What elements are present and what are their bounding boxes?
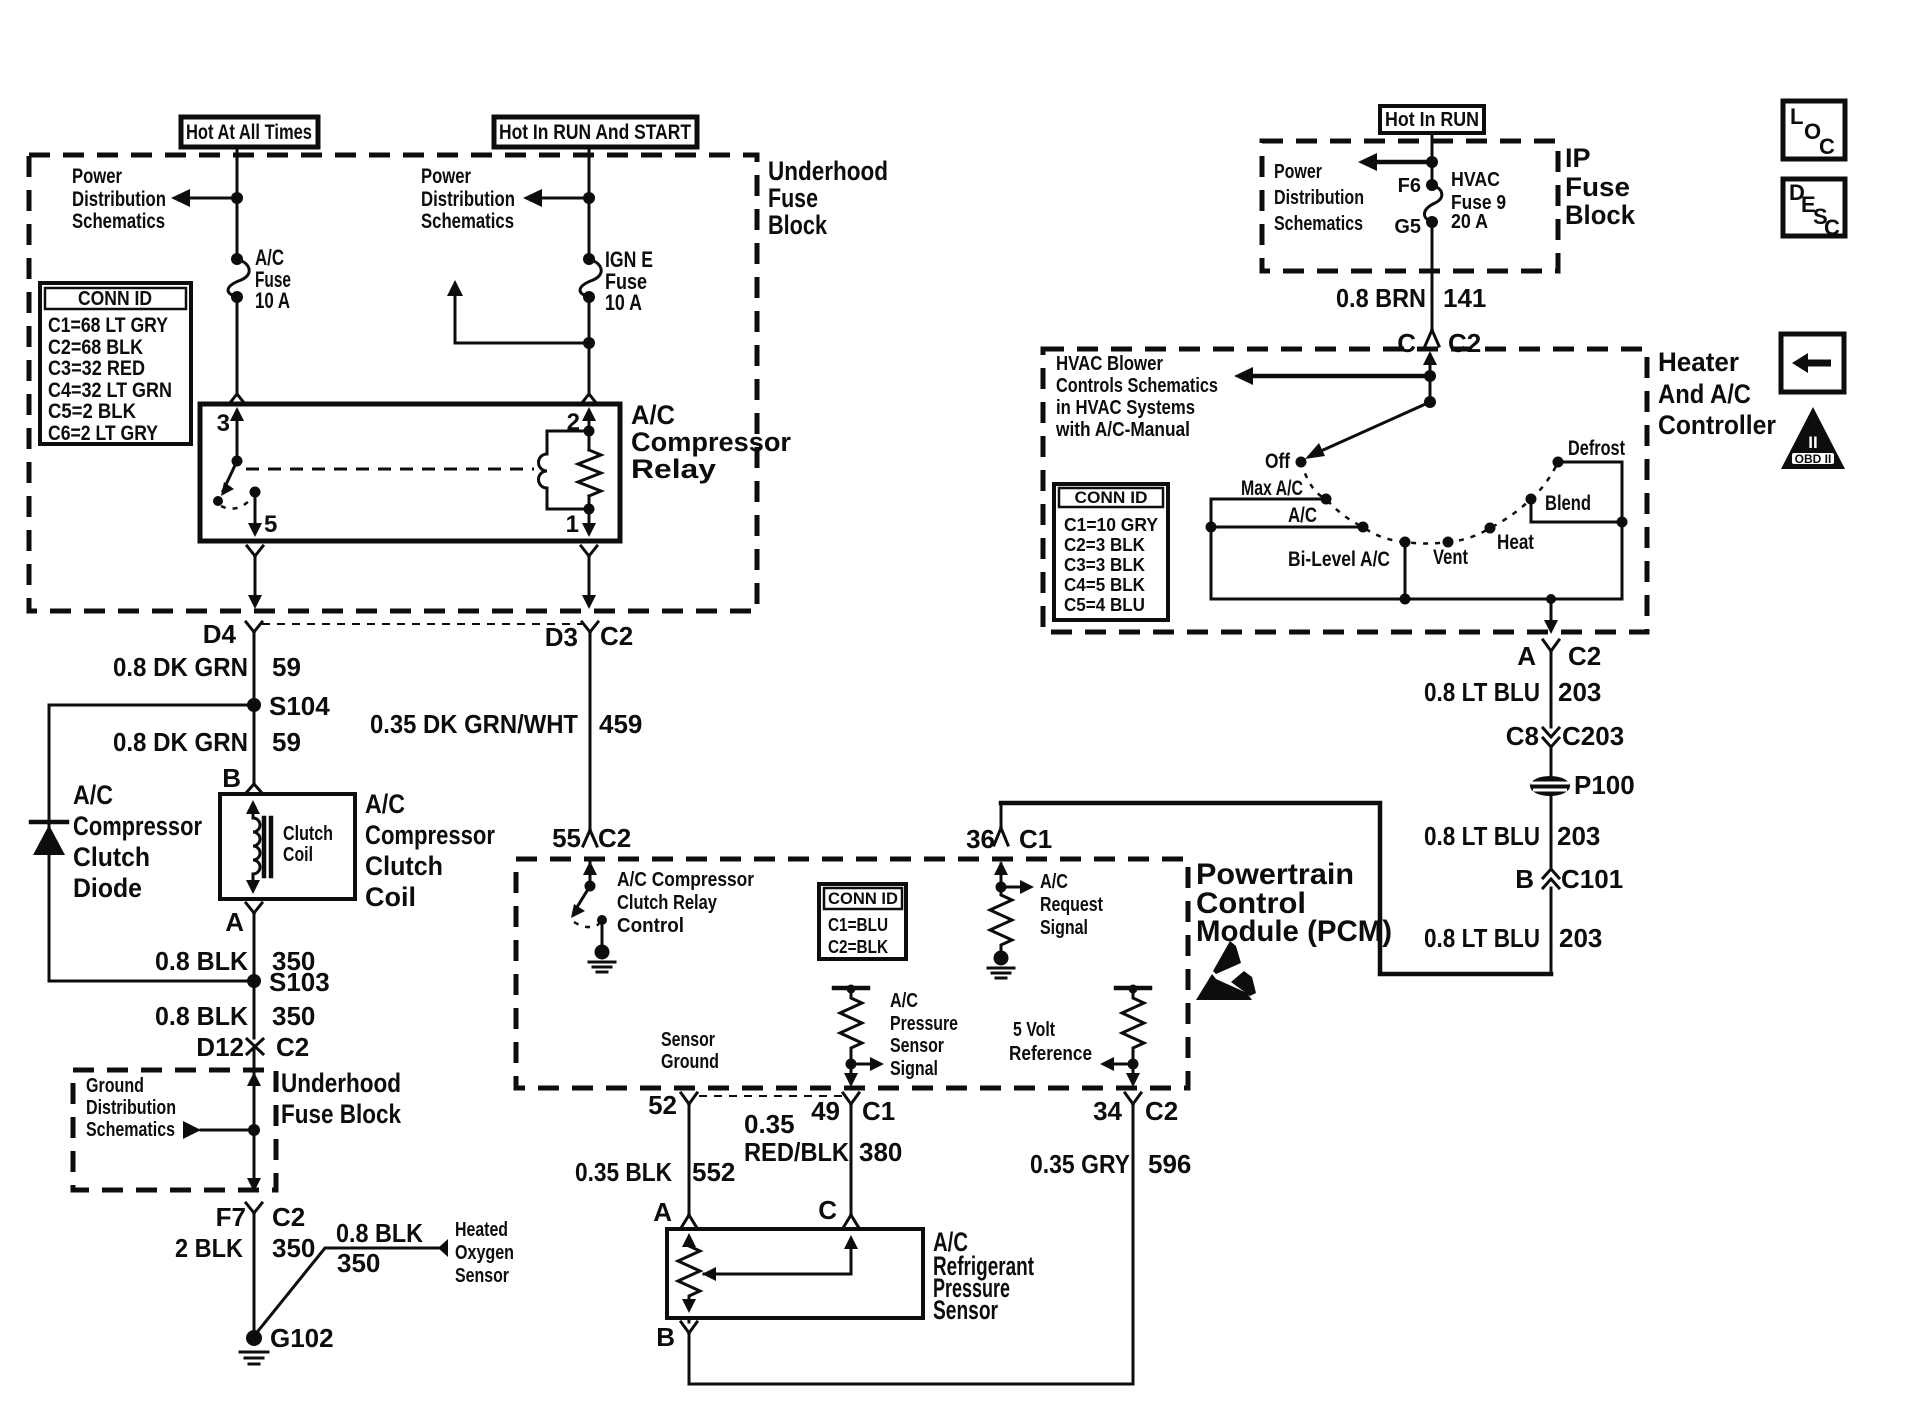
svg-text:203: 203: [1557, 821, 1600, 851]
svg-text:Coil: Coil: [365, 882, 416, 912]
svg-text:And A/C: And A/C: [1658, 379, 1751, 409]
svg-text:D4: D4: [203, 619, 237, 649]
svg-text:Distribution: Distribution: [86, 1097, 176, 1119]
svg-text:Power: Power: [421, 165, 471, 188]
svg-text:C2=BLK: C2=BLK: [828, 937, 888, 957]
svg-text:Diode: Diode: [73, 873, 142, 903]
svg-text:G5: G5: [1394, 216, 1421, 238]
svg-text:C2: C2: [272, 1202, 305, 1232]
svg-text:II: II: [1808, 433, 1817, 452]
svg-text:Schematics: Schematics: [86, 1119, 175, 1141]
svg-text:Clutch: Clutch: [283, 823, 333, 845]
svg-text:Schematics: Schematics: [1274, 213, 1363, 235]
svg-text:Module (PCM): Module (PCM): [1196, 915, 1392, 948]
svg-text:L: L: [1790, 104, 1803, 129]
svg-text:C8: C8: [1506, 721, 1539, 751]
svg-text:C2: C2: [1145, 1096, 1178, 1126]
svg-text:OBD II: OBD II: [1795, 452, 1832, 466]
svg-text:C: C: [1824, 215, 1840, 240]
svg-text:Coil: Coil: [283, 844, 313, 866]
svg-text:Bi-Level A/C: Bi-Level A/C: [1288, 548, 1390, 571]
svg-text:Schematics: Schematics: [72, 210, 165, 233]
svg-text:C5=4 BLU: C5=4 BLU: [1064, 595, 1145, 615]
svg-text:C: C: [818, 1195, 837, 1225]
svg-text:Distribution: Distribution: [421, 188, 515, 211]
svg-text:Heated: Heated: [455, 1219, 508, 1241]
svg-text:Underhood: Underhood: [281, 1068, 401, 1098]
svg-text:Compressor: Compressor: [631, 427, 791, 457]
svg-text:10 A: 10 A: [605, 290, 642, 315]
svg-text:Defrost: Defrost: [1568, 437, 1625, 460]
svg-text:49: 49: [811, 1096, 840, 1126]
svg-text:C1=10 GRY: C1=10 GRY: [1064, 515, 1158, 535]
svg-text:Ground: Ground: [86, 1075, 144, 1097]
svg-text:Reference: Reference: [1009, 1043, 1092, 1065]
svg-text:CONN ID: CONN ID: [828, 889, 898, 908]
svg-text:IP: IP: [1565, 143, 1591, 173]
svg-text:0.35 DK GRN/WHT: 0.35 DK GRN/WHT: [370, 709, 578, 739]
svg-text:Oxygen: Oxygen: [455, 1242, 514, 1264]
svg-text:Hot At All Times: Hot At All Times: [186, 121, 312, 144]
svg-text:C203: C203: [1562, 721, 1624, 751]
svg-text:5 Volt: 5 Volt: [1013, 1019, 1055, 1041]
svg-text:RED/BLK: RED/BLK: [744, 1137, 849, 1167]
svg-text:350: 350: [272, 1001, 315, 1031]
svg-text:Blend: Blend: [1545, 492, 1591, 515]
svg-text:F7: F7: [216, 1202, 246, 1232]
svg-text:D12: D12: [196, 1032, 244, 1062]
svg-text:A/C: A/C: [73, 780, 113, 810]
svg-text:36: 36: [966, 824, 995, 854]
svg-text:Fuse: Fuse: [1565, 172, 1630, 202]
svg-text:CONN ID: CONN ID: [78, 288, 152, 310]
svg-text:B: B: [1515, 864, 1534, 894]
svg-text:5: 5: [264, 511, 277, 538]
svg-text:350: 350: [272, 1233, 315, 1263]
svg-text:C5=2 BLK: C5=2 BLK: [48, 400, 136, 423]
svg-text:Clutch Relay: Clutch Relay: [617, 892, 718, 914]
svg-text:A/C: A/C: [631, 400, 675, 430]
svg-text:0.8 DK GRN: 0.8 DK GRN: [113, 652, 248, 682]
svg-text:0.8 LT BLU: 0.8 LT BLU: [1424, 821, 1540, 851]
svg-text:459: 459: [599, 709, 642, 739]
svg-text:Schematics: Schematics: [421, 210, 514, 233]
svg-text:Underhood: Underhood: [768, 156, 888, 186]
svg-text:0.8 BLK: 0.8 BLK: [155, 946, 248, 976]
svg-text:C6=2 LT GRY: C6=2 LT GRY: [48, 422, 158, 445]
svg-text:Clutch: Clutch: [73, 842, 150, 872]
svg-text:350: 350: [337, 1248, 380, 1278]
svg-text:59: 59: [272, 652, 301, 682]
svg-text:A/C: A/C: [365, 789, 405, 819]
svg-text:20 A: 20 A: [1451, 211, 1488, 233]
svg-text:55: 55: [552, 823, 581, 853]
svg-text:C2: C2: [598, 823, 631, 853]
svg-text:Heat: Heat: [1497, 531, 1534, 554]
svg-text:Pressure: Pressure: [890, 1013, 958, 1035]
svg-text:C1=BLU: C1=BLU: [828, 915, 888, 935]
svg-text:C4=5 BLK: C4=5 BLK: [1064, 575, 1145, 595]
svg-text:CONN ID: CONN ID: [1075, 488, 1148, 507]
svg-text:A: A: [1517, 641, 1536, 671]
svg-text:0.8 LT BLU: 0.8 LT BLU: [1424, 923, 1540, 953]
svg-text:Vent: Vent: [1433, 546, 1468, 569]
svg-text:Block: Block: [1565, 200, 1636, 230]
svg-text:203: 203: [1559, 923, 1602, 953]
svg-text:Control: Control: [617, 915, 684, 937]
svg-text:0.8 LT BLU: 0.8 LT BLU: [1424, 677, 1540, 707]
svg-text:Power: Power: [1274, 161, 1322, 183]
svg-text:0.35 GRY: 0.35 GRY: [1030, 1149, 1130, 1179]
svg-text:Max A/C: Max A/C: [1241, 477, 1303, 500]
svg-text:with A/C-Manual: with A/C-Manual: [1055, 419, 1190, 441]
svg-text:552: 552: [692, 1157, 735, 1187]
svg-text:C: C: [1819, 134, 1835, 159]
svg-text:Signal: Signal: [890, 1058, 938, 1080]
svg-text:Sensor: Sensor: [933, 1295, 998, 1325]
svg-text:Fuse: Fuse: [768, 183, 818, 213]
svg-text:Sensor: Sensor: [890, 1035, 944, 1057]
svg-text:A: A: [225, 907, 244, 937]
svg-text:141: 141: [1443, 283, 1486, 313]
svg-text:HVAC: HVAC: [1451, 169, 1500, 191]
svg-text:380: 380: [859, 1137, 902, 1167]
svg-text:52: 52: [648, 1090, 677, 1120]
svg-text:B: B: [656, 1322, 675, 1352]
svg-text:F6: F6: [1398, 175, 1421, 197]
svg-text:B: B: [222, 763, 241, 793]
svg-text:59: 59: [272, 727, 301, 757]
svg-text:Hot In RUN And START: Hot In RUN And START: [499, 121, 691, 144]
svg-text:Fuse Block: Fuse Block: [281, 1099, 402, 1129]
svg-text:Off: Off: [1265, 450, 1291, 473]
svg-text:Distribution: Distribution: [1274, 187, 1364, 209]
svg-text:C2: C2: [600, 621, 633, 651]
svg-text:Heater: Heater: [1658, 347, 1739, 377]
svg-text:C: C: [1397, 328, 1416, 358]
svg-text:A/C: A/C: [890, 990, 918, 1012]
svg-text:Compressor: Compressor: [365, 820, 495, 850]
svg-text:0.8 DK GRN: 0.8 DK GRN: [113, 727, 248, 757]
svg-text:Power: Power: [72, 165, 122, 188]
svg-text:Controller: Controller: [1658, 410, 1776, 440]
svg-text:Compressor: Compressor: [73, 811, 202, 841]
svg-text:A: A: [653, 1197, 672, 1227]
svg-text:A/C: A/C: [1040, 871, 1068, 893]
svg-text:G102: G102: [270, 1323, 334, 1353]
svg-text:0.8 BRN: 0.8 BRN: [1336, 283, 1426, 313]
svg-text:S104: S104: [269, 691, 330, 721]
svg-text:0.8 BLK: 0.8 BLK: [336, 1218, 423, 1248]
svg-text:0.8 BLK: 0.8 BLK: [155, 1001, 248, 1031]
svg-text:C101: C101: [1561, 864, 1623, 894]
svg-text:C2: C2: [1448, 328, 1481, 358]
svg-text:Relay: Relay: [631, 454, 716, 484]
svg-text:34: 34: [1093, 1096, 1122, 1126]
svg-text:HVAC Blower: HVAC Blower: [1056, 353, 1163, 375]
svg-text:C1=68 LT GRY: C1=68 LT GRY: [48, 314, 168, 337]
svg-text:Controls Schematics: Controls Schematics: [1056, 375, 1218, 397]
svg-text:C1: C1: [1019, 824, 1052, 854]
svg-text:Sensor: Sensor: [455, 1265, 509, 1287]
svg-text:S103: S103: [269, 967, 330, 997]
svg-text:C4=32 LT GRN: C4=32 LT GRN: [48, 379, 172, 402]
svg-text:Distribution: Distribution: [72, 188, 166, 211]
svg-text:3: 3: [217, 410, 230, 437]
svg-text:C1: C1: [862, 1096, 895, 1126]
svg-text:C3=32 RED: C3=32 RED: [48, 357, 145, 380]
svg-text:C2=68 BLK: C2=68 BLK: [48, 336, 143, 359]
svg-text:P100: P100: [1574, 770, 1635, 800]
svg-text:C2=3 BLK: C2=3 BLK: [1064, 535, 1145, 555]
svg-text:203: 203: [1558, 677, 1601, 707]
svg-text:Ground: Ground: [661, 1051, 719, 1073]
svg-text:Hot In RUN: Hot In RUN: [1385, 109, 1479, 131]
svg-text:0.35: 0.35: [744, 1109, 795, 1139]
svg-text:1: 1: [566, 511, 579, 538]
svg-text:D3: D3: [545, 622, 578, 652]
svg-text:Block: Block: [768, 210, 828, 240]
svg-text:Request: Request: [1040, 894, 1103, 916]
svg-text:A/C Compressor: A/C Compressor: [617, 869, 754, 891]
svg-text:A/C: A/C: [1288, 504, 1317, 527]
svg-text:Signal: Signal: [1040, 917, 1088, 939]
svg-text:Sensor: Sensor: [661, 1029, 715, 1051]
svg-text:10 A: 10 A: [255, 288, 290, 313]
svg-text:C2: C2: [276, 1032, 309, 1062]
svg-text:0.35 BLK: 0.35 BLK: [575, 1157, 672, 1187]
svg-text:2 BLK: 2 BLK: [175, 1233, 243, 1263]
svg-text:in HVAC Systems: in HVAC Systems: [1056, 397, 1195, 419]
svg-text:C3=3 BLK: C3=3 BLK: [1064, 555, 1145, 575]
svg-text:C2: C2: [1568, 641, 1601, 671]
svg-text:Clutch: Clutch: [365, 851, 443, 881]
svg-text:596: 596: [1148, 1149, 1191, 1179]
